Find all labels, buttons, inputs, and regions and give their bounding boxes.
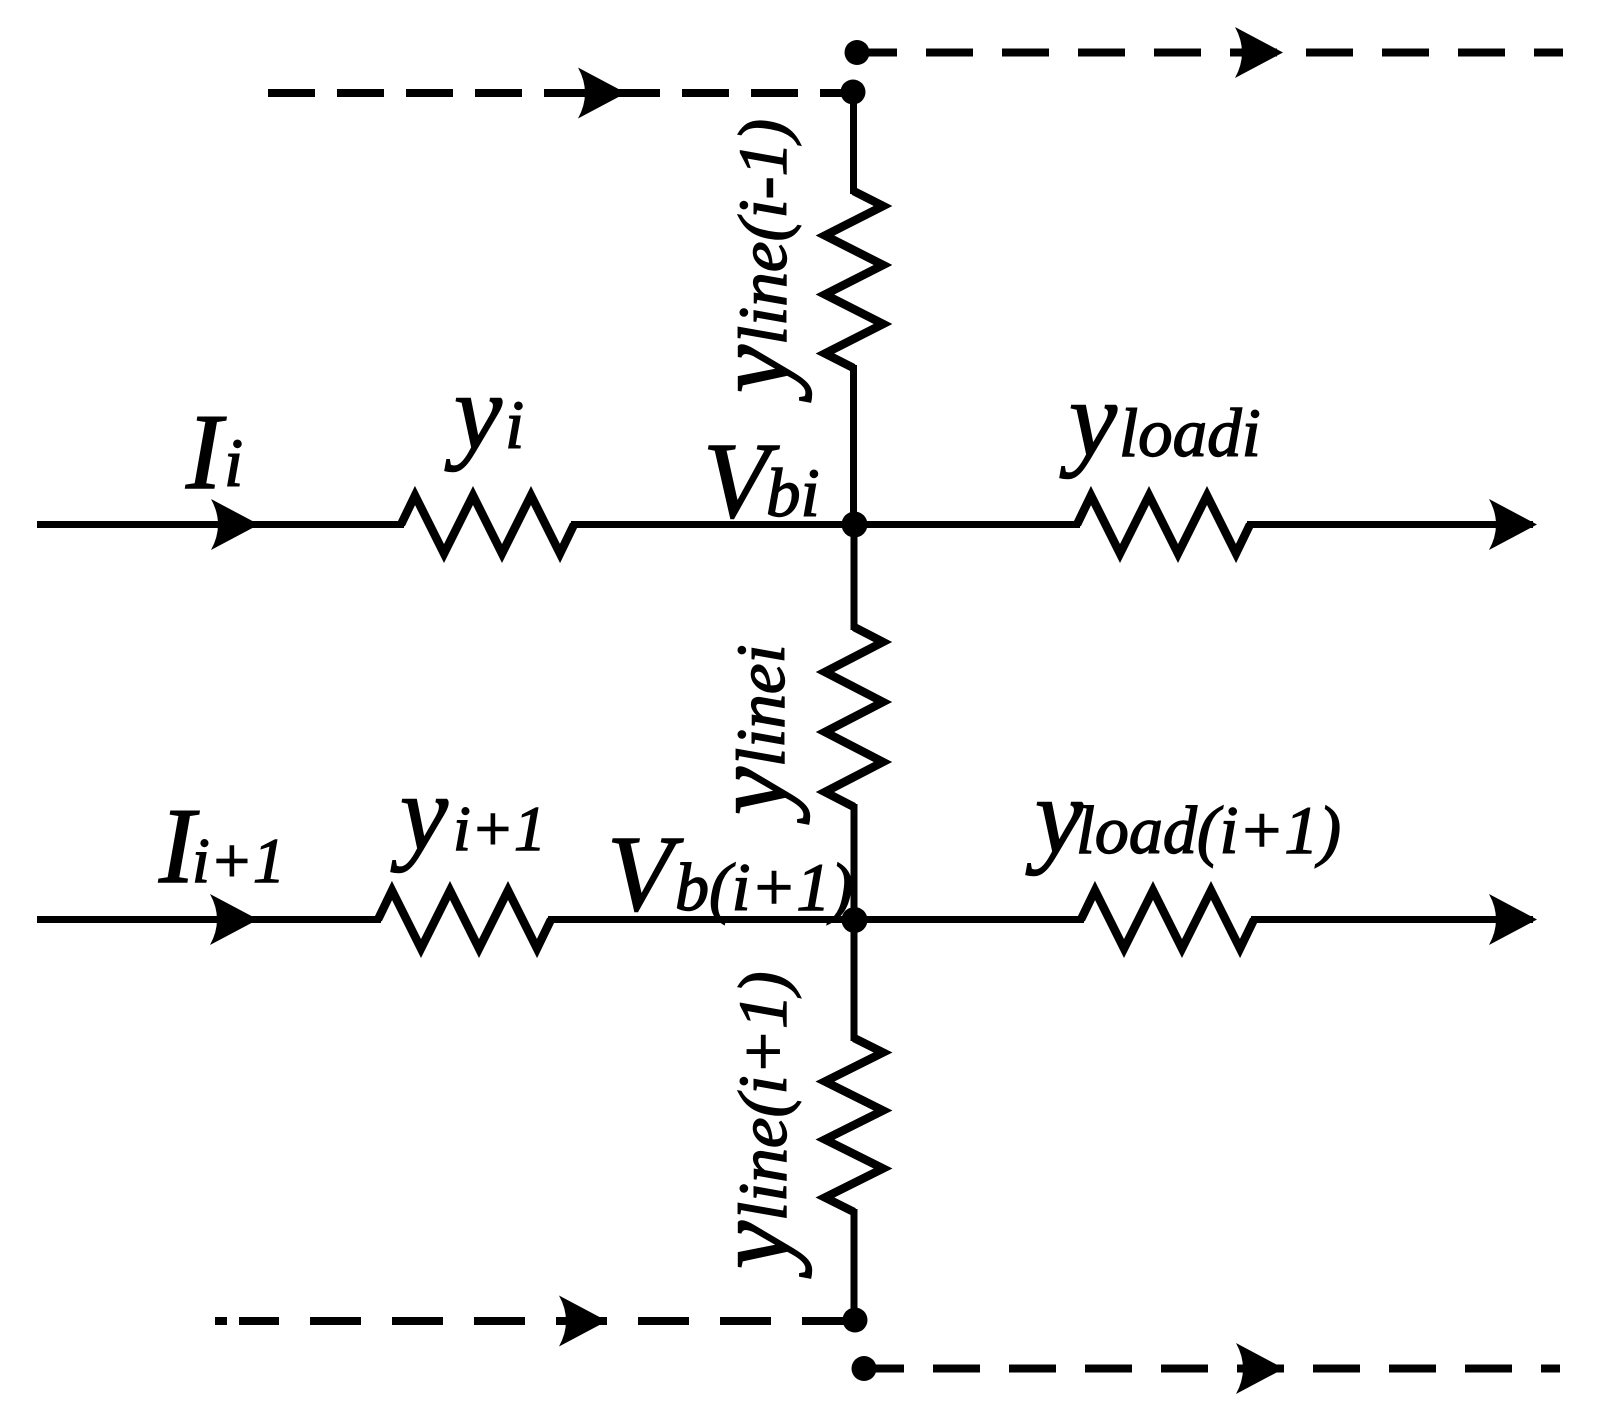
arrow Ii+1 current direction — [210, 894, 258, 945]
svg-text:y: y — [1025, 757, 1083, 876]
wire: node Vbi to resistor yloadi — [854, 521, 1080, 528]
node dot: bottom junction of yline(i+1) — [843, 1308, 868, 1333]
node dot: junction of feeder with yline(i-1) — [841, 80, 866, 105]
node Vbi (junction dot) — [842, 512, 868, 538]
resistor yloadi (load admittance, row i) — [1077, 496, 1250, 554]
node dot: top-right branch junction — [845, 40, 870, 65]
resistor yi (series branch admittance, row i) — [401, 496, 574, 554]
svg-text:line(i-1): line(i-1) — [725, 119, 801, 345]
wire: bottom-left dashed feeder (bus i+2 input) — [239, 1317, 855, 1325]
resistor yload(i+1) (load admittance, row i+1) — [1081, 891, 1254, 949]
wire: resistor yi+1 to node Vb(i+1) — [548, 916, 854, 923]
arrow Ii current direction — [211, 499, 259, 550]
resistor yline(i-1) (vertical zigzag) — [825, 191, 883, 368]
wire: top-right dashed feeder (bus i-1 output) — [857, 49, 1563, 57]
wire: bottom-left dashed feeder lead dash — [215, 1317, 227, 1325]
wire: resistor yload(i+1) to row i+1 output arrow — [1251, 916, 1533, 923]
resistor ylinei (vertical zigzag between node i and node i+1) — [825, 627, 883, 807]
svg-text:bi: bi — [766, 455, 820, 531]
svg-text:V: V — [607, 815, 684, 934]
wire: resistor yline(i+1) down to bottom junction — [851, 1209, 858, 1320]
arrow on bottom-left dashed feeder — [559, 1296, 607, 1347]
svg-text:y: y — [1059, 360, 1117, 479]
wire: row i input line — [37, 521, 404, 528]
svg-text:y: y — [691, 767, 810, 825]
wire: row i+1 input line — [37, 916, 381, 923]
wire: resistor yloadi to row i output arrow — [1247, 521, 1533, 528]
wire: node Vb(i+1) down to resistor yline(i+1) — [851, 920, 858, 1042]
arrow on top-right dashed feeder — [1235, 27, 1283, 78]
resistor yi+1 (series branch admittance, row i+1) — [378, 891, 551, 949]
wire: node Vb(i+1) to resistor yload(i+1) — [854, 916, 1084, 923]
resistor yline(i+1) (vertical zigzag) — [825, 1038, 883, 1212]
svg-text:y: y — [693, 1221, 812, 1279]
wire: bottom-right dashed feeder (bus i+2 output) — [864, 1365, 1560, 1373]
arrow row i output — [1489, 499, 1537, 550]
svg-text:i+1: i+1 — [453, 793, 546, 864]
node Vb(i+1) (junction dot) — [842, 907, 868, 933]
arrow row i+1 output — [1489, 894, 1537, 945]
wire: top junction down to resistor yline(i-1) — [850, 92, 857, 194]
svg-text:i+1: i+1 — [192, 825, 285, 896]
wire: resistor yline(i-1) down to node Vbi — [850, 365, 857, 525]
svg-text:y: y — [390, 754, 448, 873]
svg-text:load(i+1): load(i+1) — [1076, 792, 1341, 868]
svg-text:loadi: loadi — [1119, 395, 1261, 471]
wire: resistor yi to node Vbi — [571, 521, 854, 528]
node dot: bottom-right branch junction — [852, 1356, 877, 1381]
svg-text:y: y — [444, 353, 502, 472]
wire: node Vbi down to resistor ylinei — [851, 525, 858, 631]
arrow on top-left dashed feeder — [578, 68, 626, 119]
svg-text:linei: linei — [723, 644, 799, 767]
arrow on bottom-right dashed feeder — [1236, 1343, 1284, 1394]
wire: top-left dashed feeder (bus i-1 input) — [268, 89, 852, 97]
svg-text:I: I — [185, 393, 227, 512]
svg-text:i: i — [505, 387, 524, 463]
svg-text:i: i — [224, 425, 243, 501]
wire: resistor ylinei down to node Vb(i+1) — [851, 804, 858, 920]
svg-text:b(i+1): b(i+1) — [675, 849, 853, 925]
svg-text:y: y — [693, 345, 812, 403]
svg-text:line(i+1): line(i+1) — [725, 971, 801, 1221]
